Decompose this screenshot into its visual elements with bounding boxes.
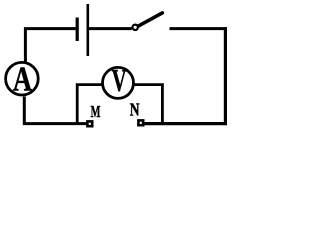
voltmeter V1 body	[103, 67, 134, 98]
wire: voltmeter right lead down to bottom wire	[135, 85, 163, 124]
switch S1 pivot circle	[133, 25, 138, 30]
wire: battery positive to switch pivot	[89, 27, 132, 30]
wire: right side vertical	[224, 27, 227, 125]
battery B1 positive plate (long)	[87, 4, 90, 56]
wire: ammeter bottom to terminal M (corner)	[24, 97, 86, 124]
svg-text:V: V	[112, 62, 127, 98]
svg-text:N: N	[130, 101, 140, 120]
svg-text:M: M	[91, 103, 101, 122]
wire: voltmeter left lead down to bottom wire	[77, 85, 102, 124]
ammeter A1 body	[6, 62, 39, 95]
switch S1 lever (open)	[138, 13, 163, 27]
terminal M (binding post square)	[87, 121, 92, 126]
svg-text:A: A	[13, 59, 33, 98]
wire: bottom-right horizontal to terminal N	[144, 122, 227, 125]
battery B1 negative plate (short)	[76, 18, 79, 42]
terminal N (binding post square)	[138, 120, 143, 125]
wire top-left: battery negative to ammeter (corner)	[25, 29, 75, 62]
wire: switch fixed contact to top-right corner	[170, 27, 227, 30]
